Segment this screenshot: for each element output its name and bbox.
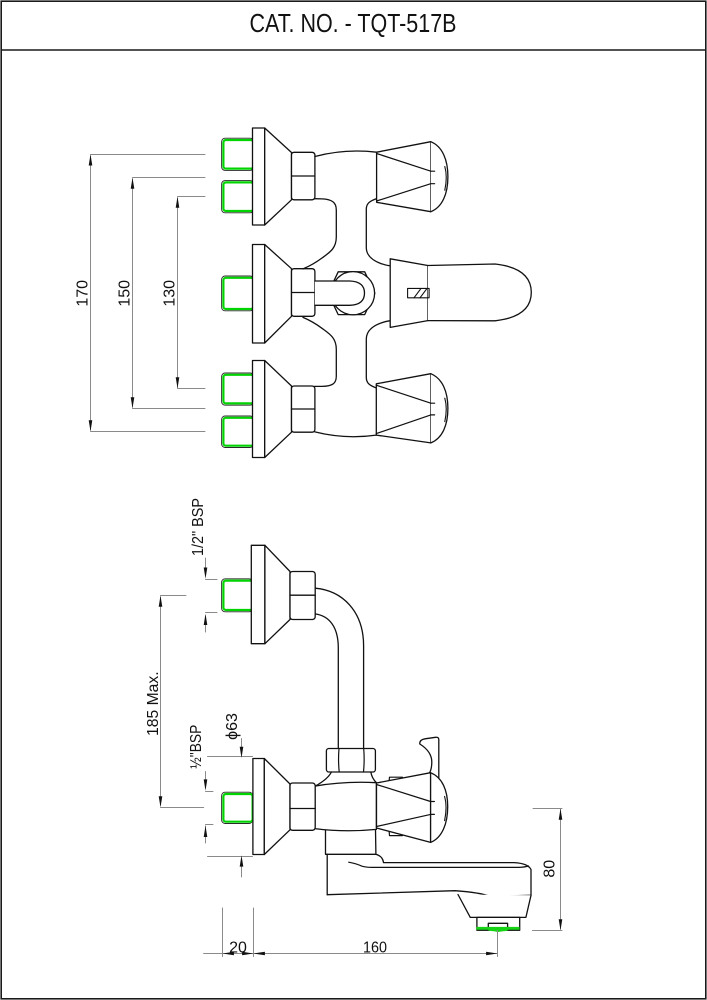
aerator housing [458, 895, 531, 918]
dim 1/2" BSP (top inlet) [206, 558, 218, 632]
svg-text:150: 150 [117, 280, 134, 307]
spout body [376, 854, 531, 895]
knob K2 facet lines [376, 385, 431, 403]
dimension 130 [178, 197, 206, 389]
inlet B2 nipple (green thread) [222, 792, 253, 823]
dim phi63 [208, 739, 253, 878]
svg-text:160: 160 [363, 940, 387, 957]
svg-text:170: 170 [75, 280, 92, 307]
inlet B1 hex nut [290, 572, 315, 620]
knob (side view) body [377, 773, 448, 843]
neck flare below coupling nut [315, 772, 331, 786]
inlet B2 flange cone [264, 759, 290, 855]
dim 185 Max. [161, 596, 204, 808]
inlet B1 flange plate [251, 545, 265, 643]
dim 80 [533, 809, 563, 931]
knob (side view) lower tab [389, 828, 404, 836]
inlet A2 hex nut [292, 269, 315, 317]
dim 20 arrows [223, 952, 234, 956]
inlet B1 flange cone [265, 545, 290, 643]
aerator green outlet band [476, 927, 519, 932]
svg-text:185 Max.: 185 Max. [145, 671, 162, 736]
spout underside [327, 891, 531, 897]
inlet A1 hex nut [292, 152, 315, 200]
dimension 170 [91, 155, 206, 432]
inlet A2 flange cone [265, 245, 292, 344]
inlet B2 flange plate [253, 759, 264, 855]
body right connector R1 [366, 199, 390, 266]
knob dome crescent [445, 796, 446, 820]
inlet A3 nipple 3 (green thread) [222, 373, 254, 405]
swan-neck pipe inner line [315, 614, 338, 749]
body left waist S2 [303, 317, 336, 386]
inlet A3 nipple 4 (green thread) [222, 416, 254, 448]
header separator [1, 49, 706, 51]
knob K1 (top-right, plan) [377, 142, 448, 212]
middle outlet circle flange [331, 272, 374, 315]
svg-text:20: 20 [229, 940, 247, 957]
body top edge [315, 151, 377, 156]
dim 160 arrows [254, 952, 265, 956]
spout (plan): pill body [428, 264, 532, 321]
valve body barrel [315, 782, 377, 830]
knob K1 facet lines [377, 154, 431, 172]
inlet A3 flange cone [265, 361, 292, 458]
spout left edge [326, 854, 328, 894]
swan-neck pipe outer line [315, 588, 363, 748]
middle outlet hexagon (face-on) [328, 272, 375, 315]
knob facet lines [377, 785, 431, 802]
svg-text:CAT. NO. - TQT-517B: CAT. NO. - TQT-517B [250, 8, 457, 38]
inlet B2 hex nut [290, 783, 315, 830]
middle outlet pipe (rounded end) [315, 281, 365, 305]
body skirt [326, 830, 376, 855]
coupling nut facet lines [338, 749, 341, 773]
body bottom edge [315, 432, 376, 437]
svg-text:80: 80 [542, 860, 559, 878]
inlet A2 flange plate [253, 245, 265, 344]
knob K1 dome crescent [445, 167, 446, 191]
diverter lever [420, 737, 439, 781]
knob K2 (bottom-right, plan) [376, 374, 448, 443]
inlet A1 flange cone [265, 128, 292, 225]
body outline (top view) [303, 151, 390, 437]
aerator body [477, 917, 520, 930]
dimension 150 [133, 178, 206, 409]
body left waist S1 [303, 199, 336, 269]
knob K2 dome crescent [445, 398, 446, 421]
svg-text:ϕ63: ϕ63 [224, 713, 241, 740]
body right connector R2 [366, 321, 390, 388]
knob (side view) upper tab [389, 777, 404, 784]
aerator bottom edge segments [477, 929, 488, 931]
dim 20 and 160 baseline [204, 908, 498, 957]
inlet A1 nipple 1 (green thread) [222, 138, 254, 170]
svg-text:½"BSP: ½"BSP [188, 725, 205, 769]
spout inner top line [349, 862, 529, 867]
inlet A2 nipple (green thread) [222, 276, 254, 311]
aerator slot [488, 923, 507, 929]
inlet A3 hex nut [292, 386, 315, 432]
inlet B1 nipple (green thread) [222, 579, 253, 612]
svg-text:130: 130 [162, 280, 179, 307]
inlet A1 nipple 2 (green thread) [222, 181, 254, 213]
inlet A3 flange plate [253, 361, 265, 458]
coupling nut on vertical pipe [326, 749, 375, 773]
TOP VIEW (plan) [222, 128, 315, 458]
spout screw slot [408, 288, 430, 297]
spout (plan): trapezoid [390, 259, 428, 328]
dim 1/2"BSP (middle inlet) [206, 772, 214, 844]
svg-text:1/2" BSP: 1/2" BSP [190, 498, 207, 556]
inlet A1 flange plate [253, 128, 265, 225]
